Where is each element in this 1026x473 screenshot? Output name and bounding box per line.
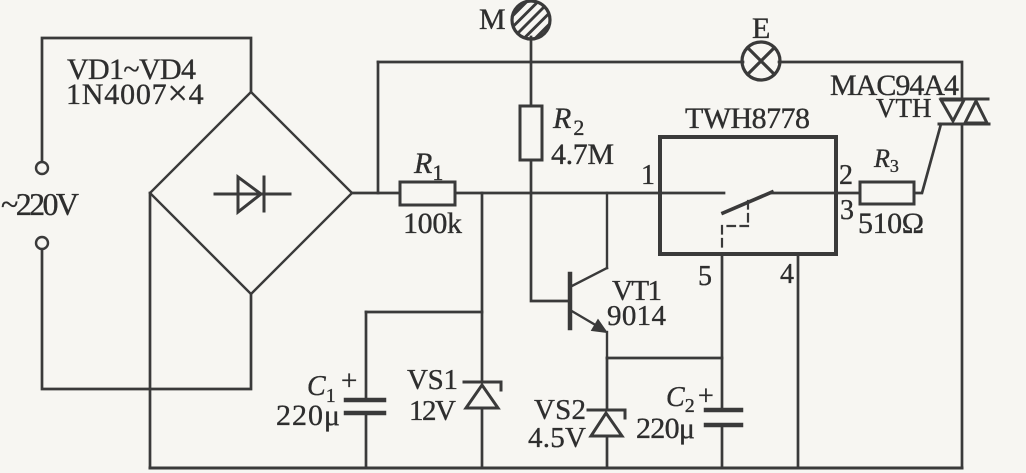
wire top rail drop at x=378 [377,62,380,193]
capacitor C2 plates [706,410,741,425]
svg-text:1: 1 [641,160,655,191]
wire C1 feed horizontal [366,311,482,314]
wire C2 bottom [721,427,724,468]
svg-text:+: + [698,381,714,412]
svg-text:TWH8778: TWH8778 [685,102,810,135]
svg-text:4: 4 [780,259,794,290]
svg-text:12V: 12V [409,395,456,427]
svg-text:M: M [479,3,506,36]
wire C1 top lead [365,312,368,398]
svg-text:4.5V: 4.5V [528,422,586,454]
wire pin4 down [797,254,800,468]
zener diode VS1 [464,382,501,408]
wire VS1 to bottom rail [481,408,484,468]
wire R2 bottom to VT1 base [531,160,568,301]
motor M circle [500,0,563,51]
wire pin2/3 to R3 [836,192,860,195]
switch blade inside TWH8778 [723,192,772,213]
svg-text:1N4007×4: 1N4007×4 [66,73,204,113]
wire bridge right vertex to R1 [352,192,400,195]
svg-text:3: 3 [840,195,854,226]
emitter arrowhead [592,320,608,333]
wire internal to pin2/3 [772,192,836,195]
wire VS2 to bottom rail [606,436,609,468]
svg-text:100k: 100k [403,207,462,240]
svg-text:9014: 9014 [607,300,667,332]
svg-text:E: E [752,12,770,45]
svg-text:4.7M: 4.7M [551,138,614,171]
resistor R1 body [400,182,455,205]
svg-text:+: + [341,365,357,397]
resistor R2 body [520,106,542,160]
lamp E [742,42,780,80]
dashed actuator link [722,201,748,252]
wire top-left loop from AC terminal to bridge top [42,38,251,161]
IC U1 TWH8778 box [660,137,836,254]
wire bottom rail [150,467,962,470]
wire C1 bottom lead [365,415,368,468]
svg-text:R1: R1 [413,147,443,185]
svg-text:VTH: VTH [876,93,932,123]
triac VTH MAC94A4 [939,99,989,124]
capacitor C1 plates [346,400,384,413]
wire VS1 branch drop [481,193,484,382]
wire triac to bottom rail [961,124,964,468]
bridge rectifier VD1~VD4 diamond [150,92,352,294]
wire lower AC terminal to bridge bottom vertex [42,250,251,389]
svg-text:R2: R2 [552,102,584,140]
svg-text:510Ω: 510Ω [858,207,924,240]
wire pin5 down [721,254,724,409]
wire emitter to pin5 node [607,357,722,360]
zener diode VS2 [606,358,609,410]
node AC terminal upper circle [36,162,48,174]
svg-text:220μ: 220μ [636,412,695,445]
resistor R3 body [860,182,914,204]
wire bridge left vertex down to bottom rail [149,193,152,468]
svg-text:220μ: 220μ [276,399,340,432]
wire top rail right of lamp [779,62,962,97]
diode symbol inside bridge [215,177,290,212]
wire R3 to triac gate [914,124,941,193]
svg-text:VS1: VS1 [407,364,458,396]
wire pin1 internal [660,192,724,195]
svg-text:2: 2 [839,160,853,191]
node AC terminal lower circle [36,237,48,249]
wire R1 right to TWH8778 pin1 [455,192,660,195]
transistor VT1 [570,193,607,358]
svg-text:R3: R3 [873,144,899,176]
wire top rail left of lamp [378,61,743,64]
svg-text:~220V: ~220V [1,186,79,222]
wire M to R2 crossing top rail [530,37,533,106]
svg-text:5: 5 [698,261,712,292]
